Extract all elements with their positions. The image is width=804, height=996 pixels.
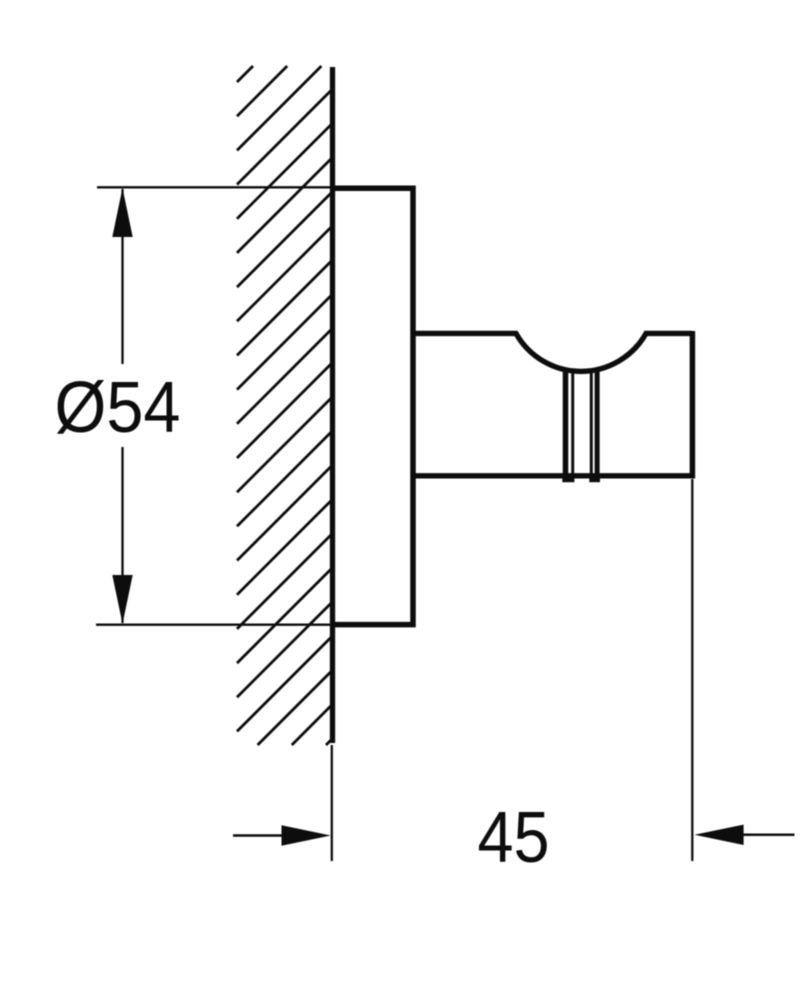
dimension extension line top (flange top): [97, 186, 332, 188]
down arrowhead of diameter dim: [112, 575, 132, 624]
hook body bottom edge: [411, 473, 695, 478]
right 45-dim arrow tail: [743, 834, 795, 837]
svg-text:45: 45: [478, 798, 550, 878]
svg-text:Ø54: Ø54: [55, 368, 181, 448]
left-pointing arrowhead at hook end: [694, 825, 743, 845]
neck groove outer-right line: [595, 368, 600, 479]
hook end face: [690, 331, 696, 478]
wall face line: [330, 67, 335, 743]
wall hatching: [237, 66, 332, 745]
neck groove inner-right line: [590, 370, 593, 479]
neck groove inner-left line: [571, 370, 574, 479]
right-pointing arrowhead at wall line: [282, 825, 331, 845]
vertical dimension line upper segment: [121, 189, 123, 364]
left 45-dim arrow tail: [233, 834, 284, 837]
wall extension line for 45 dim: [331, 745, 333, 861]
vertical dimension line lower segment: [121, 447, 123, 623]
dimension extension line bottom (flange bottom): [96, 624, 332, 626]
hook-end extension line for 45 dim: [691, 479, 693, 861]
hook body top edge with concave neck arc: [411, 333, 692, 371]
neck groove outer-left line: [563, 368, 569, 479]
wall flange plate outline: [330, 188, 413, 624]
groove stub right below bottom edge: [589, 477, 600, 482]
up arrowhead of diameter dim: [112, 188, 132, 237]
groove stub left below bottom edge: [562, 477, 574, 482]
